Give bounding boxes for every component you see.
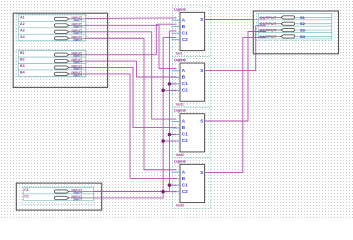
- svg-text:C2: C2: [182, 189, 188, 194]
- wire S4 (box edge to terminal): [259, 35, 282, 37]
- net stub line S2: [295, 23, 332, 25]
- op-block U3 Logical: dashed bounds: [172, 107, 210, 158]
- svg-text:C2: C2: [182, 138, 188, 143]
- net stub line S4: [295, 35, 332, 37]
- output terminal S1 row cell: [259, 14, 332, 20]
- svg-text:inst3: inst3: [176, 204, 184, 208]
- svg-text:S: S: [200, 118, 203, 123]
- wire C1 branch y83.85: [169, 83, 176, 85]
- wire A1 to U1.A: [86, 17, 177, 20]
- pin A stub U1: [172, 19, 181, 21]
- svg-text:S: S: [200, 17, 203, 22]
- op-block U2 Logical: dashed bounds: [172, 56, 210, 107]
- wire C1 branch y134.5: [169, 134, 176, 136]
- input terminal B3 row cell: [18, 64, 85, 70]
- pin C1 stub U3: [172, 134, 181, 136]
- input terminal C1 row cell: [24, 188, 94, 194]
- svg-text:C2: C2: [182, 88, 188, 93]
- svg-text:inst: inst: [176, 52, 183, 56]
- junction C2: [161, 190, 165, 194]
- op-block U4 Logical: dashed bounds: [172, 158, 210, 209]
- svg-text:S: S: [200, 68, 203, 73]
- pin C2 stub U3: [172, 140, 181, 142]
- pin A stub U4: [172, 171, 181, 173]
- svg-text:C2: C2: [24, 194, 29, 198]
- net stub line S3: [295, 29, 332, 31]
- terminal tag C1: [54, 190, 68, 193]
- svg-text:A4: A4: [20, 35, 25, 39]
- output group dashed selection rect: [256, 13, 332, 40]
- wire A3 to U3.A: [86, 32, 177, 119]
- svg-text:S2: S2: [300, 21, 306, 26]
- terminal tag C2: [54, 196, 68, 199]
- junction C1: [168, 82, 172, 86]
- left input box outer frame: [13, 13, 107, 87]
- wire B4 to U4.B: [86, 74, 177, 178]
- pin A stub U2: [172, 70, 181, 72]
- output box outer frame: [253, 11, 338, 54]
- wire A1 (terminal to box edge): [69, 18, 86, 20]
- svg-text:C1: C1: [24, 188, 29, 192]
- wire C2 branch y191.65: [163, 191, 176, 193]
- wire B2 (terminal to box edge): [69, 60, 86, 62]
- input terminal B1 row cell: [18, 51, 85, 57]
- terminal tag B1: [54, 53, 68, 56]
- pin B stub U2: [172, 76, 181, 78]
- svg-text:B1: B1: [20, 51, 25, 55]
- wire B3 to U3.B: [86, 68, 177, 128]
- svg-text:inst1: inst1: [176, 102, 184, 106]
- group A dashed selection rect: [16, 14, 87, 41]
- pin C2 stub U2: [172, 89, 181, 91]
- svg-text:S: S: [200, 170, 203, 175]
- svg-text:A1: A1: [20, 15, 25, 19]
- svg-text:Logical: Logical: [174, 159, 186, 163]
- svg-text:C1: C1: [182, 30, 188, 35]
- svg-text:Logical: Logical: [174, 7, 186, 11]
- output terminal S3 row cell: [259, 26, 332, 32]
- group C dashed selection rect: [22, 187, 94, 205]
- input terminal B4 row cell: [18, 70, 85, 76]
- wire B3 (terminal to box edge): [69, 67, 86, 69]
- wire U4.S to S4: [205, 38, 266, 173]
- svg-text:A3: A3: [20, 28, 25, 32]
- pin C2 stub U1: [172, 39, 181, 41]
- junction C2: [161, 139, 165, 143]
- input terminal A1 row cell: [18, 15, 85, 21]
- terminal tag A1: [54, 17, 68, 20]
- wire A4 (terminal to box edge): [69, 37, 86, 39]
- wire A2 (terminal to box edge): [69, 24, 86, 26]
- terminal tag B2: [54, 60, 68, 63]
- wire B2 to U2.B: [86, 61, 177, 77]
- svg-text:S4: S4: [300, 34, 306, 39]
- input terminal B2 row cell: [18, 57, 85, 63]
- wire A4 to U4.A: [86, 38, 177, 170]
- input terminal A3 row cell: [18, 28, 85, 34]
- terminal tag A4: [54, 37, 68, 40]
- wire S1 (box edge to terminal): [259, 16, 282, 18]
- pin B stub U1: [172, 26, 181, 28]
- wire S3 (box edge to terminal): [259, 29, 282, 31]
- terminal tag S1: [281, 16, 295, 19]
- wire U1.S to S1: [205, 19, 266, 21]
- output terminal S2 row cell: [259, 20, 332, 26]
- wire C1 trunk: [94, 31, 177, 192]
- pin C1 stub U1: [172, 32, 181, 34]
- wire C2 trunk: [94, 37, 177, 198]
- svg-text:B4: B4: [20, 70, 25, 74]
- input terminal A4 row cell: [18, 34, 85, 40]
- wire S2 (box edge to terminal): [259, 23, 282, 25]
- wire C2 branch y90.35: [163, 89, 176, 91]
- op-block U1 body: [180, 12, 205, 50]
- wire U2.S to S2: [205, 26, 266, 71]
- wire U3.S to S3: [205, 32, 266, 122]
- svg-text:C2: C2: [182, 37, 188, 42]
- net stub line S1: [295, 16, 332, 18]
- wire B4 (terminal to box edge): [69, 73, 86, 75]
- op-block U2 body: [180, 63, 205, 101]
- svg-text:A2: A2: [20, 22, 25, 26]
- pin B stub U4: [172, 178, 181, 180]
- junction C1: [168, 133, 172, 137]
- terminal tag A2: [54, 24, 68, 27]
- wire C2 (terminal to box edge): [69, 197, 94, 199]
- svg-text:B3: B3: [20, 64, 25, 68]
- svg-text:C1: C1: [182, 182, 188, 187]
- input terminal A2 row cell: [18, 21, 85, 27]
- pin C1 stub U4: [172, 184, 181, 186]
- op-block U1 Logical: dashed bounds: [172, 6, 210, 57]
- pin A stub U3: [172, 121, 181, 123]
- wire A3 (terminal to box edge): [69, 31, 86, 33]
- wire B1 (terminal to box edge): [69, 54, 86, 56]
- op-block U4 body: [180, 164, 205, 202]
- svg-text:S1: S1: [300, 15, 306, 20]
- svg-text:C1: C1: [182, 132, 188, 137]
- terminal tag S2: [281, 22, 295, 25]
- junction C2: [161, 89, 165, 93]
- wire C1 (terminal to box edge): [69, 191, 94, 193]
- pin C1 stub U2: [172, 83, 181, 85]
- op-block U3 body: [180, 114, 205, 152]
- svg-text:Logical: Logical: [174, 109, 186, 113]
- input terminal C2 row cell: [24, 194, 94, 200]
- wire B1 to U1.B: [86, 24, 177, 55]
- pin B stub U3: [172, 127, 181, 129]
- svg-text:C1: C1: [182, 81, 188, 86]
- group B dashed selection rect: [16, 50, 87, 77]
- terminal tag B3: [54, 66, 68, 69]
- junction C1: [168, 183, 172, 187]
- output terminal S4 row cell: [259, 33, 332, 39]
- bottom input box outer frame: [16, 183, 101, 210]
- svg-text:Logical: Logical: [174, 58, 186, 62]
- terminal tag S3: [281, 28, 295, 31]
- wire C1 branch y185.15: [169, 184, 176, 186]
- wire A2 to U2.A: [86, 25, 177, 68]
- svg-text:B2: B2: [20, 58, 25, 62]
- svg-text:inst2: inst2: [176, 153, 184, 157]
- pin C2 stub U4: [172, 191, 181, 193]
- terminal tag B4: [54, 72, 68, 75]
- terminal tag S4: [281, 35, 295, 38]
- wire C2 branch y141.0: [163, 140, 176, 142]
- svg-text:S3: S3: [300, 27, 306, 32]
- terminal tag A3: [54, 30, 68, 33]
